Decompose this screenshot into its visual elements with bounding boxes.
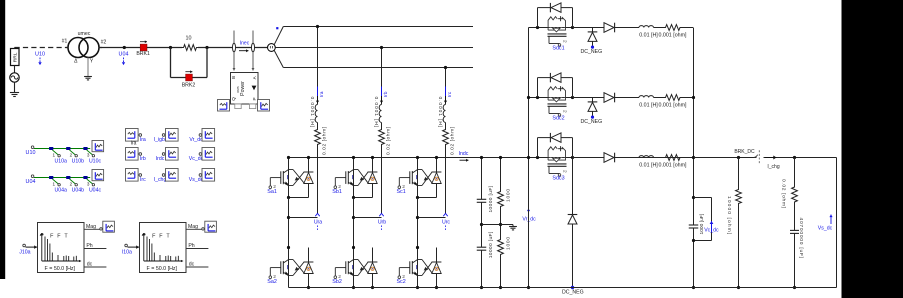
svg-text:I10a: I10a (122, 249, 132, 255)
svg-text:U04a: U04a (54, 187, 67, 193)
svg-text:2: 2 (70, 182, 73, 187)
svg-text:Power: Power (240, 81, 246, 96)
svg-text:U04: U04 (26, 179, 36, 185)
svg-text:0.02 [ohm]: 0.02 [ohm] (781, 179, 787, 209)
svg-text:U10: U10 (35, 52, 45, 58)
svg-text:F F T: F F T (152, 233, 171, 239)
svg-text:Vc_dc: Vc_dc (189, 156, 204, 162)
svg-text:Sdc1: Sdc1 (552, 45, 564, 51)
svg-text:0.0001 [H]: 0.0001 [H] (309, 97, 315, 129)
svg-text:DC_NEG: DC_NEG (580, 49, 602, 55)
svg-text:2: 2 (562, 110, 568, 113)
svg-text:2: 2 (562, 40, 568, 43)
svg-text:U04: U04 (119, 52, 129, 58)
svg-text:Urb: Urb (378, 220, 386, 226)
svg-text:1000: 1000 (505, 236, 511, 250)
svg-text:Irb: Irb (383, 91, 389, 97)
svg-text:Sa2: Sa2 (267, 279, 277, 285)
svg-text:Irc: Irc (140, 177, 146, 183)
svg-text:Ira: Ira (131, 141, 137, 147)
svg-text:U04b: U04b (72, 187, 85, 193)
svg-text:P: P (252, 97, 257, 100)
svg-text:0.01 [H]: 0.01 [H] (639, 32, 658, 38)
svg-text:Vs_dc: Vs_dc (818, 226, 833, 232)
svg-text:F = 50.0 [Hz]: F = 50.0 [Hz] (45, 266, 76, 272)
svg-text:U04c: U04c (89, 187, 102, 193)
svg-text:Irdc: Irdc (156, 156, 165, 162)
svg-text:I_chg: I_chg (767, 164, 779, 170)
svg-text:10000 [ohm]: 10000 [ohm] (726, 196, 732, 235)
svg-text:Vr_dc: Vr_dc (189, 137, 203, 143)
svg-text:Ura: Ura (314, 220, 322, 226)
svg-text:Ira: Ira (319, 91, 325, 97)
svg-text:1000: 1000 (505, 188, 511, 202)
svg-text:B: B (231, 76, 236, 79)
svg-text:2: 2 (562, 170, 568, 173)
svg-text:Inec: Inec (240, 40, 250, 46)
svg-text:F = 50.0 [Hz]: F = 50.0 [Hz] (147, 266, 178, 272)
svg-text:U10c: U10c (89, 158, 102, 164)
svg-text:J10a: J10a (19, 249, 30, 255)
svg-text:0.001 [ohm]: 0.001 [ohm] (659, 162, 688, 168)
svg-text:10000 [uF]: 10000 [uF] (488, 185, 494, 212)
svg-text:0.02 [ohm]: 0.02 [ohm] (322, 126, 328, 155)
svg-text:0.02 [ohm]: 0.02 [ohm] (386, 126, 392, 155)
svg-text:RRL: RRL (13, 52, 19, 62)
svg-text:BRK_DC: BRK_DC (734, 149, 755, 155)
svg-text:I_igbt: I_igbt (154, 137, 167, 143)
svg-text:BRK1: BRK1 (136, 51, 150, 57)
svg-text:2: 2 (70, 153, 73, 158)
svg-text:Sc2: Sc2 (396, 279, 405, 285)
svg-text:Sdc3: Sdc3 (552, 175, 564, 181)
svg-text:Sa1: Sa1 (267, 189, 277, 195)
svg-text:BRK2: BRK2 (182, 83, 196, 89)
svg-text:DC_NEG: DC_NEG (562, 289, 584, 295)
svg-text:U10a: U10a (54, 158, 67, 164)
svg-text:0.001 [ohm]: 0.001 [ohm] (659, 102, 688, 108)
svg-text:umec: umec (78, 31, 91, 37)
svg-text:0.02 [ohm]: 0.02 [ohm] (450, 126, 456, 155)
svg-text:Indc: Indc (459, 151, 469, 157)
svg-text:0.001 [ohm]: 0.001 [ohm] (659, 32, 688, 38)
svg-text:Vr_dc: Vr_dc (522, 217, 536, 223)
svg-text:Sb1: Sb1 (332, 189, 342, 195)
svg-text:Q: Q (231, 97, 236, 101)
svg-text:Sb2: Sb2 (332, 279, 342, 285)
svg-text:#1: #1 (62, 39, 68, 45)
svg-text:#2: #2 (101, 40, 107, 46)
svg-text:Vc_dc: Vc_dc (704, 227, 719, 233)
svg-text:U10b: U10b (72, 158, 85, 164)
svg-text:Ira: Ira (140, 137, 146, 143)
svg-text:1: 1 (53, 153, 56, 158)
svg-text:Irb: Irb (140, 156, 146, 162)
svg-text:Sdc2: Sdc2 (552, 115, 564, 121)
svg-text:U10: U10 (26, 150, 36, 156)
svg-text:10000 [uF]: 10000 [uF] (488, 231, 494, 258)
svg-text:I_chg: I_chg (154, 177, 167, 183)
svg-text:Sc1: Sc1 (396, 189, 405, 195)
svg-text:F F T: F F T (50, 233, 69, 239)
svg-text:0.0001 [H]: 0.0001 [H] (437, 97, 443, 129)
svg-text:0.01 [H]: 0.01 [H] (639, 102, 658, 108)
svg-text:40700000 [uF]: 40700000 [uF] (798, 218, 804, 259)
svg-text:RMS: RMS (236, 86, 240, 92)
svg-text:1: 1 (53, 182, 56, 187)
svg-text:0.0001 [H]: 0.0001 [H] (373, 97, 379, 129)
svg-text:Urc: Urc (442, 220, 450, 226)
svg-text:3: 3 (87, 153, 90, 158)
svg-text:10: 10 (186, 36, 192, 42)
svg-text:DC_NEG: DC_NEG (580, 119, 602, 125)
svg-text:Vs_dc: Vs_dc (189, 177, 204, 183)
svg-text:3: 3 (87, 182, 90, 187)
svg-text:0.01 [H]: 0.01 [H] (639, 162, 658, 168)
svg-text:Irc: Irc (447, 91, 453, 97)
